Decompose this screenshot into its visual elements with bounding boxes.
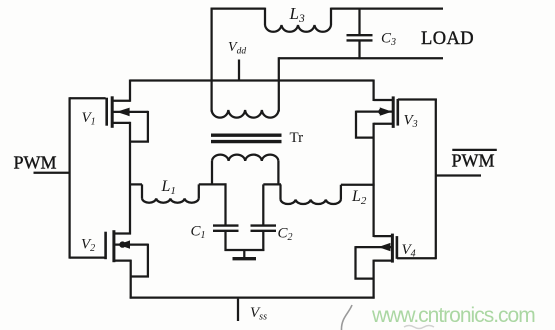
wire Vss stub [237, 299, 239, 321]
wire V4 body-source loop [356, 246, 374, 279]
inductor L2 [281, 184, 375, 204]
svg-text:www.cntronics.com: www.cntronics.com [371, 304, 535, 327]
transformer core [211, 135, 282, 141]
capacitor C2 [251, 184, 277, 251]
wire right mid rail (V3 source to V4 drain) [372, 123, 374, 237]
wire Vdd stub [238, 60, 240, 81]
wire top-left vertical (secondary left lead up to L3 loop) [210, 8, 212, 112]
svg-text:L2: L2 [351, 188, 367, 207]
wire Vdd rail [130, 79, 374, 81]
wire PWM lead [34, 172, 71, 174]
wire bottom rail Vss [130, 296, 375, 298]
svg-text:C3: C3 [381, 31, 396, 49]
wire V2 body-source loop [131, 244, 148, 277]
wire left gate bus [68, 97, 70, 258]
wire PWMbar lead [436, 174, 481, 176]
wire V1 body-source loop [130, 111, 148, 142]
wire V3 body-source loop [356, 111, 374, 138]
wire secondary right lead (crosses Vdd rail) [278, 57, 280, 111]
ground [233, 250, 257, 259]
label PWMbar [452, 149, 497, 151]
svg-text:L3: L3 [289, 4, 305, 25]
wire V4 gate link [397, 257, 436, 259]
wire right gate bus [435, 99, 437, 260]
svg-text:V1: V1 [82, 110, 96, 128]
capacitor C3 [347, 9, 373, 60]
transistor V3 [356, 80, 398, 128]
wire load lower rail [279, 57, 443, 59]
wire left mid rail (V1 source to V2 drain) [129, 122, 131, 235]
svg-text:LOAD: LOAD [421, 29, 474, 49]
transistor V1 [70, 96, 148, 128]
svg-text:C1: C1 [191, 224, 206, 242]
svg-text:L1: L1 [161, 178, 176, 197]
transistor V4 [356, 234, 397, 263]
transformer Tr bottom winding [212, 155, 278, 186]
capacitor C1 [213, 183, 239, 251]
wire top horizontal left [211, 7, 265, 9]
svg-text:PWM: PWM [14, 153, 57, 173]
wire V4 source to bottom rail [372, 260, 374, 299]
wire center tap horizontal (C2 corner to L2) [263, 183, 281, 185]
svg-text:Vss: Vss [250, 305, 267, 323]
svg-text:PWM: PWM [452, 151, 495, 171]
wire C1-C2 bottom link [225, 249, 265, 251]
wire V2 source to bottom rail [130, 260, 132, 299]
inductor L1 [129, 184, 227, 202]
transformer Tr top winding [212, 110, 279, 118]
wire V3 gate link [398, 98, 437, 100]
svg-text:C2: C2 [278, 226, 293, 244]
svg-text:V4: V4 [402, 242, 416, 260]
svg-text:V2: V2 [81, 237, 95, 255]
inductor L3 [265, 8, 331, 32]
wire V1 drain to Vdd rail [129, 80, 131, 102]
transistor V2 [70, 230, 148, 262]
svg-text:Vdd: Vdd [228, 40, 246, 57]
svg-text:V3: V3 [404, 113, 418, 131]
svg-text:Tr: Tr [290, 130, 304, 146]
faint bottom edge marks [404, 326, 434, 329]
wire top horizontal right [331, 7, 443, 9]
stray pen stroke [341, 305, 352, 330]
